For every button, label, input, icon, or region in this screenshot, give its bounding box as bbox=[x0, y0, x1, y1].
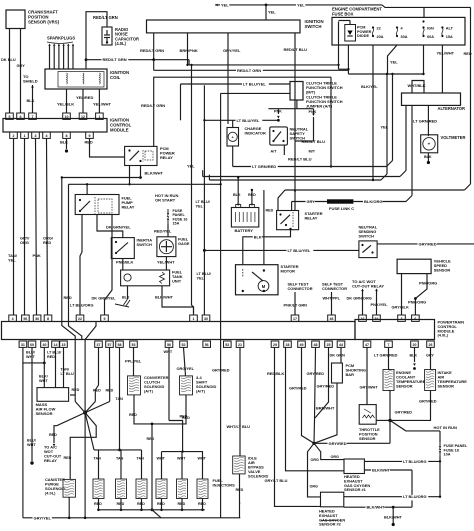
terminal 47 bbox=[363, 341, 371, 347]
svg-text:RED: RED bbox=[85, 140, 93, 145]
wire BLU/WHT 31 bbox=[23, 347, 46, 364]
svg-text:DK GRN/YEL: DK GRN/YEL bbox=[106, 225, 131, 230]
wire DK GRN/YEL relay to PCM 9 bbox=[92, 215, 117, 316]
label TO A/C WOT CUT-OUT RELAY bbox=[352, 279, 384, 289]
wire PNK/BLK inertia to tank bbox=[116, 259, 133, 271]
svg-text:RED: RED bbox=[464, 51, 472, 56]
svg-text:48: 48 bbox=[314, 343, 318, 347]
self test connector 1 bbox=[284, 282, 313, 316]
wire LT BLU/YEL to charge indicator bbox=[203, 85, 280, 127]
svg-text:RED: RED bbox=[137, 502, 145, 506]
wire GRY/LT BLU 29 to hego2 bbox=[265, 347, 321, 506]
svg-text:RED: RED bbox=[198, 502, 206, 506]
terminal 3 bbox=[32, 132, 40, 138]
wire clutch switch bottom to jumper line bbox=[268, 100, 313, 109]
svg-text:BLK: BLK bbox=[424, 155, 432, 159]
svg-text:BLK/ORG: BLK/ORG bbox=[364, 199, 382, 204]
wire GRY/RED IAT down bbox=[390, 391, 437, 421]
PCM power diode bbox=[339, 21, 372, 46]
svg-text:(4.0L): (4.0L) bbox=[45, 491, 56, 496]
terminal 46 pcm bbox=[328, 315, 336, 321]
converter clutch solenoid wire bbox=[125, 347, 142, 376]
wire YEL/WHT ALT fuse to alternator bbox=[437, 45, 455, 93]
svg-text:GRY: GRY bbox=[17, 63, 26, 68]
svg-text:BLK/WHT: BLK/WHT bbox=[145, 171, 164, 176]
svg-text:PPL/YEL: PPL/YEL bbox=[125, 359, 142, 364]
svg-text:GRY/RED: GRY/RED bbox=[329, 441, 347, 446]
wire DK BLU crank sensor pin1 to ICM 5 bbox=[1, 29, 16, 114]
wire LT GRN/RED charge to alternator bbox=[233, 74, 393, 170]
wire YEL/WHT gage to tank bbox=[157, 257, 175, 270]
svg-text:RED/LT GRN: RED/LT GRN bbox=[140, 48, 164, 53]
crankshaft position sensor bbox=[6, 10, 60, 29]
svg-text:53: 53 bbox=[132, 343, 136, 347]
svg-text:GRY/YEL: GRY/YEL bbox=[34, 515, 52, 520]
svg-text:WHT: WHT bbox=[27, 443, 36, 447]
wire GRY 26 to IAT bbox=[426, 347, 434, 369]
intake air temperature sensor bbox=[425, 370, 468, 391]
svg-text:25: 25 bbox=[327, 343, 331, 347]
converter clutch solenoid bbox=[128, 375, 169, 395]
terminal 5 bbox=[6, 113, 14, 119]
svg-text:47: 47 bbox=[365, 343, 369, 347]
wire DK GRN/ORG to PCM 16 bbox=[347, 289, 372, 316]
wire BLK relay to starter bbox=[243, 228, 292, 265]
wire ORG/RED ICM 4 to PCM 8 bbox=[43, 138, 54, 315]
svg-text:YEL: YEL bbox=[197, 276, 205, 280]
svg-text:RED: RED bbox=[178, 502, 186, 506]
svg-text:RED: RED bbox=[248, 193, 256, 197]
wire DK GRN 44 to shorting bar bbox=[330, 347, 346, 363]
svg-text:RED: RED bbox=[94, 502, 102, 506]
wire bus to fuel pump relay bbox=[86, 183, 88, 194]
svg-text:YEL/BLK: YEL/BLK bbox=[57, 102, 74, 107]
svg-text:BATTERY: BATTERY bbox=[235, 228, 254, 233]
wire 31 continues to canister bbox=[22, 363, 24, 518]
terminal 2 bbox=[10, 132, 18, 138]
self test connector 2 bbox=[322, 282, 347, 316]
funnel junction bbox=[312, 442, 315, 445]
svg-text:57: 57 bbox=[108, 343, 112, 347]
wire RED 37 down bbox=[93, 347, 101, 401]
terminal 54 pcm bbox=[373, 315, 381, 321]
svg-text:21: 21 bbox=[238, 343, 242, 347]
wire PNK jumper AT bbox=[274, 109, 282, 119]
svg-text:GRY: GRY bbox=[307, 200, 316, 204]
svg-text:RED: RED bbox=[43, 240, 51, 245]
wire RED 57 down bbox=[106, 347, 114, 401]
wire TAN 58 down bbox=[116, 347, 124, 451]
svg-text:GRY/YEL: GRY/YEL bbox=[223, 48, 241, 53]
svg-text:UNIT: UNIT bbox=[172, 278, 182, 283]
svg-text:FUSE LINK C: FUSE LINK C bbox=[329, 206, 354, 211]
svg-text:LT BLU/: LT BLU/ bbox=[197, 272, 212, 276]
svg-text:8: 8 bbox=[47, 317, 49, 321]
bus BLK/WHT long bbox=[69, 183, 222, 185]
wire star to canister bbox=[64, 413, 97, 480]
svg-text:BLU/: BLU/ bbox=[26, 351, 36, 355]
wire LT BLU/ORG hego1 bbox=[364, 459, 441, 465]
throttle position sensor bbox=[359, 405, 380, 441]
wire LT GRN/RED alternator to voltmeter bbox=[413, 105, 437, 136]
svg-text:ORG: ORG bbox=[310, 485, 319, 489]
label M/T bbox=[309, 150, 316, 154]
svg-text:CUT-OUT RELAY: CUT-OUT RELAY bbox=[352, 284, 384, 289]
svg-text:30: 30 bbox=[204, 317, 208, 321]
wire LT BLU/ORG hego2 bbox=[344, 494, 441, 500]
svg-text:RED: RED bbox=[106, 389, 114, 393]
voltmeter bbox=[421, 135, 466, 153]
svg-text:BAR: BAR bbox=[346, 372, 355, 377]
svg-text:PNK/ORG: PNK/ORG bbox=[419, 281, 437, 286]
svg-text:GRY/RED: GRY/RED bbox=[289, 386, 307, 391]
svg-text:1: 1 bbox=[193, 317, 195, 321]
terminal 1b bbox=[21, 132, 29, 138]
terminal 21 bbox=[236, 341, 244, 347]
wire DK GRN/YEL relay to inertia bbox=[97, 215, 131, 238]
svg-text:TAN/: TAN/ bbox=[61, 368, 71, 372]
label RED/LT BLU mid bbox=[302, 139, 326, 144]
svg-text:LT BLU/ORG: LT BLU/ORG bbox=[403, 459, 426, 464]
terminal 9 bbox=[86, 132, 94, 138]
svg-text:LT BLU/ORG: LT BLU/ORG bbox=[70, 303, 93, 308]
svg-text:RELAY: RELAY bbox=[160, 155, 173, 160]
svg-text:IGN: IGN bbox=[427, 27, 434, 31]
svg-text:BLK/: BLK/ bbox=[39, 375, 49, 379]
svg-text:BLK/YEL: BLK/YEL bbox=[361, 84, 378, 89]
svg-text:TAN: TAN bbox=[94, 457, 102, 461]
wire BLK 20 ground bbox=[410, 347, 418, 370]
svg-text:28: 28 bbox=[286, 343, 290, 347]
wire ORG to hego2 bbox=[308, 443, 321, 497]
starter motor bbox=[236, 264, 299, 295]
starter relay bbox=[277, 211, 323, 230]
svg-text:52: 52 bbox=[182, 343, 186, 347]
svg-text:SENSOR: SENSOR bbox=[438, 384, 455, 389]
svg-text:RED/LT BLU: RED/LT BLU bbox=[302, 139, 326, 144]
svg-text:15A: 15A bbox=[173, 222, 180, 226]
svg-text:PNK: PNK bbox=[309, 110, 317, 114]
fuse panel fuse 16 bbox=[154, 193, 187, 237]
svg-text:(A/T): (A/T) bbox=[144, 389, 154, 394]
terminal 1 bbox=[96, 113, 104, 119]
svg-text:14: 14 bbox=[54, 343, 58, 347]
hego2 bbox=[319, 492, 345, 527]
svg-text:BLK: BLK bbox=[27, 98, 35, 103]
svg-text:3: 3 bbox=[401, 317, 403, 321]
bus RED long bbox=[62, 177, 141, 179]
svg-text:RED: RED bbox=[236, 488, 244, 492]
svg-text:DK GRN/ORG: DK GRN/ORG bbox=[347, 296, 372, 301]
wire GRY crank sensor pin2 to ICM 6 bbox=[17, 29, 26, 114]
svg-text:YEL: YEL bbox=[8, 258, 16, 263]
svg-text:WHT: WHT bbox=[177, 457, 186, 461]
wire YEL/WHT coil to ICM 1 bbox=[93, 89, 112, 113]
terminal 58 bbox=[116, 341, 124, 347]
terminal 40 bbox=[41, 341, 49, 347]
svg-text:4: 4 bbox=[12, 317, 14, 321]
svg-text:RED: RED bbox=[182, 416, 190, 420]
svg-text:RED: RED bbox=[72, 388, 80, 392]
svg-text:56: 56 bbox=[205, 343, 209, 347]
svg-text:ORG: ORG bbox=[331, 455, 340, 459]
svg-text:YEL/WHT: YEL/WHT bbox=[437, 51, 455, 56]
svg-text:17: 17 bbox=[293, 317, 297, 321]
alternator bbox=[402, 93, 466, 111]
svg-text:SENSOR: SENSOR bbox=[36, 411, 53, 416]
svg-text:RED: RED bbox=[117, 502, 125, 506]
wire GRY/RED NSS out bbox=[377, 241, 474, 247]
wire 25 funnel bbox=[315, 347, 335, 418]
wire GRY/BLK vss to PCM 3 bbox=[392, 274, 410, 315]
wire 49 funnel bbox=[302, 347, 315, 443]
svg-text:BRN/WHT: BRN/WHT bbox=[316, 406, 335, 411]
svg-text:BLK/WHT: BLK/WHT bbox=[384, 515, 403, 520]
wire YEL drop to ignition switch bbox=[266, 5, 276, 20]
terminal 48 bbox=[312, 341, 320, 347]
wire diode leg left bbox=[337, 45, 339, 69]
terminal 28 bbox=[284, 341, 292, 347]
wire GRY/RED shorting bar down bbox=[314, 383, 337, 443]
svg-text:52: 52 bbox=[225, 343, 229, 347]
svg-text:+: + bbox=[428, 142, 431, 147]
wire LT BLU/RED 14 to MAF bbox=[47, 347, 62, 387]
svg-text:TAN: TAN bbox=[116, 397, 124, 401]
wire RED/LT GRN capacitor to coil bbox=[85, 12, 118, 69]
terminal 44 bbox=[337, 341, 345, 347]
svg-text:SENSOR: SENSOR bbox=[396, 384, 413, 389]
wire WHT/BLK alternator loop bbox=[408, 81, 426, 94]
svg-text:LT BLU/: LT BLU/ bbox=[47, 351, 62, 355]
wire YEL/RED coil to ICM 12 bbox=[76, 89, 93, 113]
svg-text:M: M bbox=[262, 284, 266, 289]
svg-text:OR START: OR START bbox=[155, 198, 176, 203]
svg-text:7: 7 bbox=[388, 343, 390, 347]
fuse IGN 60A bbox=[422, 20, 434, 39]
svg-text:ALT: ALT bbox=[446, 27, 454, 31]
engine coolant temperature sensor bbox=[383, 370, 426, 391]
svg-text:GRY: GRY bbox=[426, 354, 434, 358]
wire alternator output to y179 bbox=[405, 105, 407, 170]
bus GRY fuse link bbox=[292, 196, 412, 212]
svg-text:COIL: COIL bbox=[110, 75, 121, 80]
svg-text:CONNECTOR: CONNECTOR bbox=[322, 286, 347, 291]
svg-text:SENSOR #1: SENSOR #1 bbox=[344, 487, 367, 492]
svg-text:MODULE: MODULE bbox=[110, 127, 129, 132]
vehicle speed sensor bbox=[397, 259, 451, 274]
ignition control module bbox=[3, 118, 132, 133]
svg-text:RED: RED bbox=[47, 355, 55, 359]
svg-text:LT BLU/YEL: LT BLU/YEL bbox=[237, 118, 260, 123]
svg-text:15A: 15A bbox=[446, 35, 453, 39]
svg-text:WHT/BLK: WHT/BLK bbox=[408, 83, 426, 88]
svg-text:8: 8 bbox=[66, 134, 68, 138]
svg-text:RED: RED bbox=[147, 437, 155, 441]
wire star down bbox=[84, 413, 86, 518]
bus GRY/RED hot in run bbox=[314, 420, 390, 447]
svg-text:DK GRN/YEL: DK GRN/YEL bbox=[92, 296, 117, 301]
svg-text:TAN: TAN bbox=[116, 457, 124, 461]
svg-text:SENSOR: SENSOR bbox=[434, 267, 451, 272]
svg-text:PNK: PNK bbox=[274, 110, 282, 114]
terminal 12 bbox=[79, 113, 87, 119]
wire LT BLU/ORG crossing bar bbox=[69, 184, 94, 339]
svg-text:BLK: BLK bbox=[410, 354, 418, 358]
bus mid upper bbox=[203, 170, 406, 176]
svg-text:WHT/LT BLU: WHT/LT BLU bbox=[227, 424, 251, 429]
wire BRN/PNK switch drop bbox=[180, 33, 198, 66]
radio noise capacitor bbox=[102, 27, 139, 46]
svg-text:INDICATOR: INDICATOR bbox=[245, 130, 266, 135]
wire BLK/WHT relay out bbox=[139, 166, 163, 179]
wire LT GRN/RED 7 to ECT bbox=[374, 347, 398, 369]
wire BLK ICM 8 ground bbox=[60, 138, 68, 152]
svg-text:GRY/RED: GRY/RED bbox=[419, 399, 437, 404]
wire BRN-PNK jog bbox=[188, 60, 190, 65]
wire RED solenoid bus down bbox=[147, 424, 162, 518]
terminal 31 bbox=[19, 341, 27, 347]
svg-text:(4.0L): (4.0L) bbox=[438, 333, 449, 338]
svg-text:RED: RED bbox=[64, 456, 72, 460]
svg-text:HOT IN RUN: HOT IN RUN bbox=[434, 425, 457, 430]
pcm power relay bbox=[125, 146, 175, 166]
svg-text:6: 6 bbox=[414, 317, 416, 321]
svg-text:ALTERNATOR: ALTERNATOR bbox=[438, 106, 466, 111]
svg-text:LT BLU/YEL: LT BLU/YEL bbox=[243, 82, 266, 87]
terminal 56c bbox=[203, 341, 211, 347]
terminal 7 bbox=[29, 113, 37, 119]
clutch triple function switch bbox=[290, 81, 343, 109]
svg-text:SENSOR: SENSOR bbox=[359, 436, 376, 441]
fuse 4 30A bbox=[396, 26, 408, 39]
fuel injector 6 bbox=[197, 452, 235, 512]
svg-text:BLK: BLK bbox=[254, 235, 262, 239]
svg-text:GRY/BLK: GRY/BLK bbox=[392, 304, 410, 309]
svg-text:PNK: PNK bbox=[33, 253, 41, 258]
svg-text:9: 9 bbox=[104, 317, 106, 321]
svg-text:20A: 20A bbox=[377, 35, 384, 39]
terminal 8 bbox=[63, 132, 71, 138]
terminal 10 bbox=[63, 113, 71, 119]
wire relay out 2 bbox=[128, 166, 130, 186]
wire star to injector bus bbox=[85, 413, 141, 450]
fuel gage bbox=[157, 237, 190, 257]
svg-text:49: 49 bbox=[300, 343, 304, 347]
terminal 37 bbox=[95, 341, 103, 347]
terminal 17 pcm bbox=[291, 315, 299, 321]
fuel injector 3 bbox=[136, 450, 147, 511]
terminal 56b bbox=[165, 341, 173, 347]
canister purge solenoid bbox=[45, 477, 75, 518]
svg-text:YEL: YEL bbox=[297, 2, 305, 7]
wire relay to PCM 22 bbox=[80, 215, 82, 316]
terminal 20 bbox=[411, 341, 419, 347]
star junction bbox=[75, 402, 110, 415]
svg-text:30A: 30A bbox=[401, 35, 408, 39]
svg-text:9: 9 bbox=[89, 134, 91, 138]
svg-text:ORG: ORG bbox=[311, 458, 320, 462]
svg-text:YEL: YEL bbox=[187, 164, 195, 169]
wire YEL/BLK coil to ICM 10 bbox=[57, 89, 74, 113]
hego1 bbox=[344, 459, 370, 492]
terminal 26 bbox=[427, 341, 435, 347]
terminal 49 bbox=[298, 341, 306, 347]
svg-text:RED/LT BLU: RED/LT BLU bbox=[288, 157, 312, 162]
svg-text:RED: RED bbox=[49, 433, 57, 437]
terminal 9 pcm bbox=[101, 315, 109, 321]
terminal 15 bbox=[60, 341, 68, 347]
fuel injector 2 bbox=[116, 450, 127, 511]
svg-text:SENSOR (VRS): SENSOR (VRS) bbox=[28, 19, 60, 24]
svg-text:RELAY: RELAY bbox=[122, 204, 135, 209]
svg-text:RELAY: RELAY bbox=[44, 458, 57, 463]
wire RED/LT GRN switch drop bbox=[140, 33, 164, 61]
wire RED/LT BLU switch drop bbox=[284, 33, 308, 211]
svg-text:YEL/WHT: YEL/WHT bbox=[93, 102, 112, 107]
svg-text:BLK/WHT: BLK/WHT bbox=[367, 505, 386, 510]
charge indicator bbox=[227, 126, 266, 146]
wire LT BLU/YEL to clutch switch bbox=[181, 82, 291, 121]
sparkplugs bbox=[47, 36, 75, 70]
svg-text:JUMPER (A/T): JUMPER (A/T) bbox=[306, 103, 333, 108]
svg-text:(4.0L): (4.0L) bbox=[115, 41, 127, 46]
terminal 36 pcm bbox=[33, 315, 41, 321]
wire TAN/LT BLU 15 to MAF bbox=[61, 347, 74, 387]
wire NSS bottom bbox=[284, 145, 311, 161]
terminal 25 bbox=[325, 341, 333, 347]
wire PNK ICM 3 to PCM 36 bbox=[33, 138, 41, 315]
svg-text:10A: 10A bbox=[444, 453, 451, 457]
svg-text:YEL: YEL bbox=[196, 204, 204, 208]
fuel injector 4 bbox=[156, 452, 167, 512]
wire YEL fuse4 drop bbox=[388, 45, 399, 74]
svg-text:4: 4 bbox=[46, 134, 48, 138]
svg-text:LT BLU/YEL: LT BLU/YEL bbox=[288, 248, 311, 253]
terminal 30 pcm bbox=[202, 315, 210, 321]
ignition coil bbox=[45, 69, 129, 89]
wire RED/LT GRN node to ignition switch bbox=[86, 57, 189, 65]
svg-text:RED: RED bbox=[93, 389, 101, 393]
wire RED/LT GRN lower run bbox=[154, 60, 349, 74]
svg-text:RED/LT GRN: RED/LT GRN bbox=[141, 103, 165, 108]
terminal 14 bbox=[52, 341, 60, 347]
svg-text:WHT: WHT bbox=[198, 457, 207, 461]
svg-text:RED/LT GRN: RED/LT GRN bbox=[93, 15, 118, 20]
wire GRY/YEL switch drop to charge indicator bbox=[223, 33, 241, 124]
wire BLK/WHT tank to PCM 1 bbox=[155, 286, 194, 315]
svg-text:A/T: A/T bbox=[271, 150, 278, 154]
terminal 7 bbox=[385, 341, 393, 347]
svg-text:22: 22 bbox=[78, 317, 82, 321]
svg-text:GRY/RED: GRY/RED bbox=[212, 368, 230, 373]
wire RED/LT GRN to IGN fuse staircase bbox=[189, 45, 425, 75]
wire BLU/WHT 60 ground bbox=[27, 347, 37, 464]
svg-text:56: 56 bbox=[23, 317, 27, 321]
terminal 4 pcm bbox=[9, 315, 17, 321]
terminal 6 bbox=[17, 113, 25, 119]
wire PNK/YEL to PCM 54 bbox=[371, 289, 388, 316]
terminal 8 pcm bbox=[44, 315, 52, 321]
terminal 29 bbox=[271, 341, 279, 347]
wire RED right edge feed bbox=[464, 7, 472, 184]
wire solenoid RED bus bbox=[129, 395, 188, 425]
engine compartment fuse box bbox=[332, 7, 465, 46]
fuel pump relay bbox=[75, 195, 135, 216]
svg-text:WHT/PPL: WHT/PPL bbox=[323, 296, 341, 301]
svg-text:GRY/RED: GRY/RED bbox=[317, 384, 335, 389]
svg-text:PNK/YEL: PNK/YEL bbox=[371, 302, 388, 307]
svg-text:PNK/BLK: PNK/BLK bbox=[116, 260, 133, 265]
